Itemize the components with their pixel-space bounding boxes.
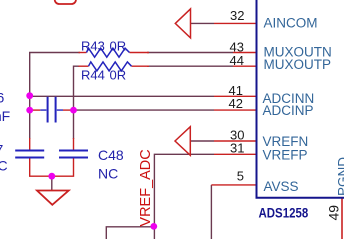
- pin 44 stub: [233, 65, 256, 67]
- svg-text:44: 44: [230, 53, 244, 68]
- pin 49 stub: [341, 199, 343, 240]
- junction dot node C: [70, 107, 77, 114]
- pin 30 stub: [214, 140, 256, 142]
- svg-text:PGND: PGND: [336, 157, 344, 196]
- junction dot VREF net: [150, 223, 157, 230]
- power symbol (cut off at top): [55, 0, 76, 4]
- svg-text:MUXOUTP: MUXOUTP: [264, 57, 332, 72]
- wire node ADCINN horizontal: [30, 95, 214, 97]
- svg-text:AINCOM: AINCOM: [264, 15, 318, 30]
- svg-text:NC: NC: [0, 158, 8, 174]
- junction dot ground node: [48, 173, 55, 180]
- svg-text:AVSS: AVSS: [264, 179, 299, 194]
- capacitor C48 top lead: [73, 138, 75, 150]
- svg-text:5: 5: [237, 169, 244, 184]
- svg-text:6: 6: [0, 90, 5, 106]
- pin 32 stub: [214, 22, 256, 24]
- pin 5 stub: [211, 184, 255, 186]
- svg-text:VREFP: VREFP: [263, 148, 308, 163]
- svg-text:R43: R43: [81, 39, 105, 54]
- svg-text:C48: C48: [98, 147, 124, 163]
- svg-text:ADS1258: ADS1258: [259, 206, 309, 221]
- svg-text:VREF_ADC: VREF_ADC: [138, 149, 154, 226]
- wire ground stub: [51, 176, 53, 190]
- resistor R44 lead red right: [132, 65, 150, 67]
- wire bottom branch corner: [106, 227, 154, 239]
- svg-text:42: 42: [229, 96, 243, 111]
- pin 41 stub: [214, 95, 256, 97]
- wire AINCOM from arrow: [191, 22, 215, 24]
- pin 43 stub: [233, 52, 256, 54]
- resistor R43 lead red left: [79, 52, 87, 54]
- svg-text:7: 7: [0, 142, 4, 158]
- wire VREFP corner down VREF ADC net: [154, 154, 214, 239]
- svg-text:49: 49: [326, 205, 342, 221]
- wire VREFN from arrow: [190, 140, 214, 142]
- wire R43 left (corner down left column): [30, 53, 80, 140]
- svg-text:ADCINP: ADCINP: [263, 103, 314, 118]
- junction dot node A: [26, 92, 33, 99]
- resistor R43 lead red right: [130, 52, 150, 54]
- pin 31 stub: [214, 153, 256, 155]
- wire AVSS vertical drop: [210, 185, 212, 239]
- pin 42 stub: [214, 109, 256, 111]
- wire R43 right to pin 43: [147, 52, 233, 54]
- svg-text:nF: nF: [0, 108, 10, 124]
- capacitor bottom leads joining wire: [30, 159, 74, 177]
- capacitor C46 plates: [48, 97, 56, 123]
- wire R44 left (corner down second column): [74, 66, 80, 139]
- resistor R44 zigzag: [89, 62, 132, 71]
- junction dot node B: [26, 107, 33, 114]
- svg-text:R44: R44: [81, 68, 105, 83]
- net flag arrow VREFN: [175, 127, 190, 156]
- svg-text:NC: NC: [98, 166, 118, 182]
- wire R44 right to pin 44: [147, 65, 233, 67]
- capacitor C48 plates: [59, 151, 88, 158]
- resistor R44 lead red left: [79, 65, 89, 67]
- svg-text:0R: 0R: [110, 39, 127, 54]
- resistor R43 zigzag: [87, 48, 130, 57]
- capacitor C46 lead red left: [31, 109, 41, 111]
- chip U ADS1258 border: [257, 0, 344, 198]
- wire node ADCINP horizontal: [74, 109, 215, 111]
- svg-text:32: 32: [230, 8, 244, 23]
- svg-text:0R: 0R: [110, 68, 127, 83]
- capacitor C47 plates: [15, 151, 44, 158]
- capacitor C46 blue lead ticks: [40, 109, 63, 111]
- net flag arrow AINCOM: [175, 9, 190, 38]
- svg-text:31: 31: [230, 141, 244, 156]
- capacitor C47 top lead: [29, 138, 31, 150]
- ground: [37, 191, 69, 205]
- capacitor C46 lead red right: [63, 109, 73, 111]
